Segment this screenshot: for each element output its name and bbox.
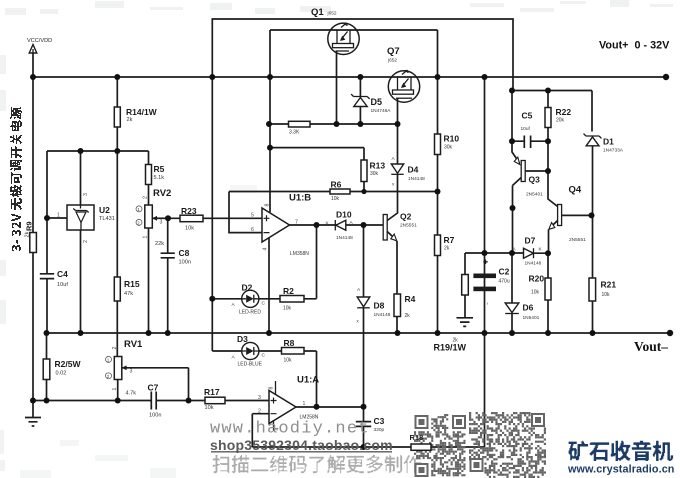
svg-text:R22: R22 (556, 107, 572, 117)
wire output lower row (252, 333, 484, 447)
svg-text:Q1: Q1 (311, 7, 324, 18)
svg-text:R23: R23 (181, 206, 197, 216)
svg-text:100n: 100n (149, 413, 161, 419)
node dots (left) (30, 74, 192, 404)
resistor R18 (label over QR) (410, 433, 432, 450)
resistor R13 (361, 160, 385, 192)
op-amp U1:A (252, 375, 363, 448)
svg-text:4: 4 (263, 248, 269, 251)
svg-text:1N4746A: 1N4746A (371, 108, 392, 114)
svg-text:330p: 330p (374, 427, 385, 433)
label 3-32V adjustable switching supply (vertical) (10, 107, 22, 251)
svg-text:LED-BLUE: LED-BLUE (238, 362, 263, 368)
svg-text:C2: C2 (499, 267, 510, 277)
power flag VCC/VDD (27, 38, 52, 53)
svg-text:3.3K: 3.3K (289, 130, 300, 136)
svg-text:1: 1 (112, 388, 118, 391)
resistor R7 (435, 192, 455, 334)
svg-text:C5: C5 (522, 111, 533, 121)
svg-text:R9: R9 (25, 221, 34, 231)
svg-text:2: 2 (112, 347, 118, 350)
svg-text:R6: R6 (331, 180, 342, 190)
wire U1B out net (212, 77, 316, 351)
svg-text:C4: C4 (57, 269, 68, 279)
svg-text:www.crystalradio.cn: www.crystalradio.cn (567, 464, 675, 476)
svg-text:10uf: 10uf (521, 126, 531, 132)
svg-text:Q2: Q2 (400, 212, 412, 222)
svg-text:5: 5 (251, 213, 254, 219)
svg-text:R21: R21 (601, 280, 617, 290)
svg-text:1N4148: 1N4148 (336, 235, 353, 241)
svg-text:C7: C7 (148, 383, 159, 393)
capacitor C4 (40, 269, 69, 288)
svg-text:Q3: Q3 (529, 175, 541, 185)
svg-text:2N5551: 2N5551 (569, 237, 586, 243)
transistor Q4 (548, 141, 592, 253)
svg-text:D5: D5 (371, 97, 383, 107)
wire TL431 cathode branch (46, 151, 48, 333)
svg-text:R13: R13 (370, 161, 386, 171)
zener D1 (584, 134, 624, 216)
svg-text:D4: D4 (408, 165, 419, 175)
svg-text:2N5551: 2N5551 (400, 223, 417, 229)
wire bottom feedback row (33, 400, 269, 402)
svg-text:30k: 30k (370, 171, 379, 177)
wire output sense vertical (484, 77, 486, 333)
svg-text:10k: 10k (283, 306, 292, 312)
svg-text:2N5401: 2N5401 (526, 192, 543, 198)
resistor R8 (282, 338, 305, 364)
resistor 3.3K gate (269, 121, 398, 135)
LED D2 (232, 283, 266, 316)
svg-text:4.7k: 4.7k (126, 391, 137, 397)
mosfet Q1 (311, 7, 359, 124)
svg-text:2k: 2k (25, 231, 31, 237)
svg-text:2: 2 (83, 240, 89, 243)
wire gate line (270, 30, 438, 212)
svg-text:D7: D7 (525, 236, 536, 246)
svg-text:D3: D3 (237, 334, 248, 344)
QR code 1 (0, 0, 1, 1)
svg-text:VCC/VDD: VCC/VDD (27, 38, 52, 44)
svg-text:R4: R4 (405, 294, 416, 304)
svg-text:3: 3 (130, 369, 133, 375)
svg-text:U1:B: U1:B (289, 193, 311, 204)
svg-text:8: 8 (265, 204, 271, 207)
svg-text:47k: 47k (124, 291, 133, 297)
svg-text:LM358N: LM358N (290, 251, 309, 257)
diode D6 (505, 253, 539, 333)
svg-text:1N5401: 1N5401 (523, 315, 540, 321)
resistor R14/1W (114, 77, 157, 151)
svg-text:R2/5W: R2/5W (55, 359, 82, 369)
wire comparator row (465, 252, 512, 254)
resistor R15 (114, 151, 140, 357)
svg-text:C3: C3 (374, 416, 385, 426)
potentiometer RV2 (136, 188, 171, 333)
svg-text:8: 8 (269, 387, 275, 390)
svg-text:R14/1W: R14/1W (126, 107, 158, 117)
wire bottom common rail (47, 332, 671, 334)
svg-text:2k: 2k (127, 117, 133, 123)
resistor R5 (146, 151, 165, 205)
svg-text:1: 1 (143, 236, 149, 239)
resistor R23 (168, 206, 262, 232)
capacitor C5 (512, 91, 548, 149)
wire R13 branch (270, 148, 364, 160)
wire gate loop top (212, 19, 513, 91)
svg-text:D1: D1 (603, 137, 614, 147)
resistor R20 (529, 253, 552, 333)
svg-text:www.haodiy.net: www.haodiy.net (210, 420, 370, 439)
svg-text:2k: 2k (405, 313, 411, 319)
svg-text:1N4148: 1N4148 (408, 176, 425, 182)
node dots (mid) (209, 74, 400, 450)
wire VCC top rail (33, 53, 666, 77)
svg-text:R15: R15 (124, 279, 140, 289)
svg-text:R2: R2 (283, 286, 294, 296)
resistor R6 (229, 180, 438, 203)
QR codes (414, 412, 546, 478)
svg-text:RV1: RV1 (124, 339, 143, 350)
svg-text:R20: R20 (529, 274, 545, 284)
svg-text:22k: 22k (155, 241, 164, 247)
svg-text:D6: D6 (523, 303, 534, 313)
svg-text:~: ~ (485, 302, 490, 305)
svg-text:RV2: RV2 (153, 188, 171, 199)
wire reference node row (47, 150, 149, 152)
resistor R19/1W (434, 253, 469, 353)
svg-text:10k: 10k (205, 405, 214, 411)
svg-text:j652: j652 (327, 11, 337, 17)
svg-text:U2: U2 (99, 205, 110, 215)
svg-text:Vout–: Vout– (634, 339, 668, 354)
svg-text:1: 1 (303, 401, 306, 407)
diode D8 (357, 225, 391, 407)
wire D3 row (212, 351, 316, 407)
resistor R10 (435, 77, 460, 192)
svg-text:R10: R10 (444, 134, 460, 144)
diode D7 (512, 236, 548, 267)
svg-text:10k: 10k (531, 290, 540, 296)
resistor R2 (280, 286, 304, 312)
resistor R2/5W (43, 333, 81, 401)
svg-text:R5: R5 (154, 164, 165, 174)
svg-text:470u: 470u (499, 279, 510, 285)
svg-text:3: 3 (258, 395, 261, 401)
svg-text:1N4148: 1N4148 (525, 261, 542, 267)
svg-text:3: 3 (83, 193, 89, 196)
ground (left) (25, 401, 41, 427)
ground (mid right) (457, 318, 474, 327)
svg-text:D10: D10 (336, 210, 352, 220)
svg-text:1N4148: 1N4148 (374, 312, 391, 318)
svg-text:LED-RED: LED-RED (239, 310, 261, 316)
svg-text:2: 2 (143, 196, 149, 199)
svg-text:6: 6 (251, 227, 254, 233)
resistor R9 (25, 221, 37, 252)
svg-text:D8: D8 (374, 301, 385, 311)
svg-text:Q4: Q4 (569, 185, 582, 196)
svg-text:10k: 10k (602, 292, 611, 298)
potentiometer RV1 (106, 339, 189, 401)
svg-text:U1:A: U1:A (297, 375, 319, 386)
watermark line3 (scan QR) (213, 455, 421, 473)
svg-text:D2: D2 (242, 283, 253, 293)
wire feedback to pin6 (229, 192, 262, 233)
svg-text:5.1k: 5.1k (154, 175, 165, 181)
node dots (right) (435, 74, 674, 336)
svg-text:0.02: 0.02 (56, 371, 67, 377)
wire left vertical net (32, 77, 34, 401)
svg-text:R17: R17 (204, 387, 220, 397)
op-amp U1:B (251, 193, 364, 334)
resistor R22 (545, 91, 571, 142)
svg-text:1N4733A: 1N4733A (603, 148, 624, 154)
transistor Q2 (364, 174, 418, 294)
svg-text:3: 3 (160, 220, 163, 226)
transistor Q3 (512, 141, 548, 253)
svg-text:2k: 2k (444, 246, 450, 252)
svg-text:Vout+ 0 - 32V: Vout+ 0 - 32V (599, 40, 670, 52)
TL431 U2 (47, 151, 115, 333)
mosfet Q7 (387, 46, 420, 124)
svg-text:R8: R8 (284, 338, 295, 348)
svg-text:20k: 20k (556, 118, 565, 124)
svg-text:R18: R18 (410, 433, 424, 442)
svg-text:Q7: Q7 (387, 46, 400, 57)
resistor R4 (394, 294, 416, 333)
svg-text:C: C (262, 353, 266, 359)
resistor R17 (204, 387, 225, 411)
svg-text:10k: 10k (331, 196, 340, 202)
svg-text:10k: 10k (284, 358, 293, 364)
capacitor C7 (148, 383, 162, 419)
wire aux rail (512, 91, 592, 132)
capacitor C8 (161, 218, 191, 333)
diode D4 (391, 124, 425, 187)
logo crystalradio (569, 441, 673, 461)
svg-text:R7: R7 (444, 235, 455, 245)
svg-text:shop35392304.taobao.com: shop35392304.taobao.com (210, 437, 393, 453)
zener D5 (351, 77, 391, 124)
svg-text:j652: j652 (387, 58, 397, 64)
resistor R21 (589, 215, 616, 333)
svg-text:100n: 100n (179, 260, 191, 266)
svg-text:TL431: TL431 (99, 216, 115, 222)
LED D3 (232, 334, 266, 368)
svg-text:30k: 30k (444, 145, 453, 151)
svg-text:C: C (262, 301, 266, 307)
capacitor C2 (473, 260, 509, 306)
svg-text:R19/1W: R19/1W (434, 343, 467, 353)
svg-text:10k: 10k (185, 226, 194, 232)
capacitor C3 (356, 407, 385, 447)
svg-text:10uf: 10uf (57, 282, 68, 288)
diode D10 (326, 210, 354, 242)
svg-text:C8: C8 (179, 248, 190, 258)
